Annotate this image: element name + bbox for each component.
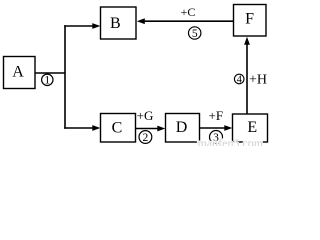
wire junction to B (64, 25, 94, 27)
wire junction vertical (64, 25, 66, 129)
box A (4, 57, 36, 89)
arrowhead into C (92, 125, 100, 131)
svg-text:+H: +H (249, 73, 267, 88)
svg-text:F: F (245, 11, 254, 28)
box F (234, 5, 267, 37)
arrowhead into F bottom (244, 37, 250, 45)
svg-text:2: 2 (143, 132, 149, 144)
wire junction to C (64, 127, 94, 129)
svg-text:B: B (110, 15, 121, 32)
svg-text:4: 4 (237, 75, 243, 86)
box D (166, 114, 200, 143)
svg-text:1: 1 (44, 75, 50, 87)
circled 1 (42, 74, 53, 86)
wire F to B (143, 20, 234, 22)
wire D to E (200, 127, 226, 129)
circled 3 (210, 131, 223, 144)
wire E to F (246, 42, 248, 114)
box B (101, 7, 137, 39)
circled 2 (139, 131, 152, 144)
arrowhead into E (224, 125, 232, 131)
wire C to D (136, 128, 159, 130)
arrowhead into B (92, 23, 100, 29)
arrowhead into D (157, 126, 165, 132)
svg-text:E: E (247, 119, 257, 136)
arrowhead into B right (137, 18, 145, 24)
wire A to junction (35, 72, 65, 74)
svg-text:C: C (112, 119, 123, 136)
svg-text:+G: +G (137, 108, 154, 123)
svg-text:D: D (176, 119, 188, 136)
svg-text:+F: +F (209, 108, 224, 123)
box E (233, 114, 268, 142)
svg-text:5: 5 (192, 28, 198, 40)
box C (101, 114, 136, 143)
svg-text:manfen5.com: manfen5.com (198, 136, 264, 146)
svg-text:+C: +C (181, 5, 196, 19)
svg-text:A: A (12, 63, 24, 80)
circled 4 (234, 74, 244, 85)
circled 5 (189, 27, 201, 40)
